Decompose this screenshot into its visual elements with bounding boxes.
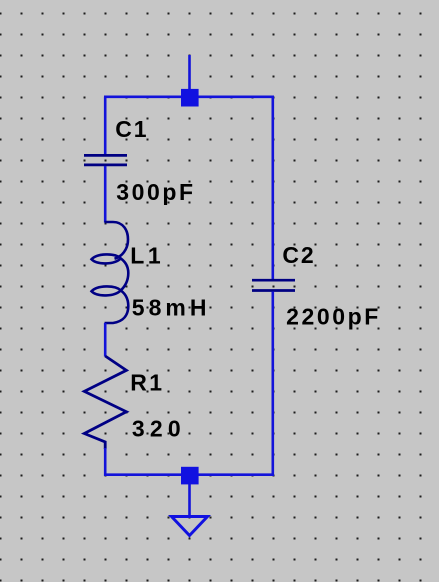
- wire: R1 to bottom: [104, 448, 107, 476]
- ground: [172, 517, 208, 536]
- wire: ground stub: [188, 483, 191, 516]
- svg-text:C2: C2: [282, 242, 315, 268]
- node: bottom junction square: [181, 467, 199, 485]
- wire: C1 to L1: [104, 166, 107, 223]
- wire: top horizontal: [104, 96, 274, 99]
- svg-text:300pF: 300pF: [116, 179, 195, 205]
- node: top junction square: [181, 89, 199, 107]
- svg-text:L1: L1: [130, 243, 164, 269]
- wire: right vertical to C2: [271, 97, 274, 279]
- wire: L1 to R1: [104, 323, 107, 357]
- wire: bottom horizontal: [104, 473, 274, 476]
- wire: C2 to bottom: [271, 292, 274, 475]
- capacitor C1: [84, 155, 127, 165]
- svg-text:R1: R1: [130, 369, 164, 395]
- svg-text:C1: C1: [115, 116, 148, 142]
- svg-text:2200pF: 2200pF: [286, 304, 381, 330]
- wire: left vertical to C1: [104, 97, 107, 155]
- wire: top stub above node: [188, 55, 191, 89]
- capacitor C2: [252, 280, 295, 290]
- svg-text:320: 320: [132, 415, 186, 441]
- inductor L1: [92, 222, 129, 323]
- svg-text:58mH: 58mH: [132, 295, 211, 321]
- resistor R1: [84, 356, 126, 449]
